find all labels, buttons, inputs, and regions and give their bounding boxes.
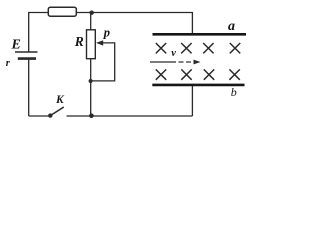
svg-text:b: b [231, 85, 237, 99]
svg-text:a: a [228, 19, 235, 34]
svg-text:r: r [6, 58, 11, 69]
svg-text:v: v [171, 48, 176, 59]
svg-text:E: E [11, 37, 21, 52]
svg-text:R: R [74, 34, 84, 49]
svg-text:p: p [103, 26, 110, 40]
svg-text:K: K [55, 94, 65, 106]
